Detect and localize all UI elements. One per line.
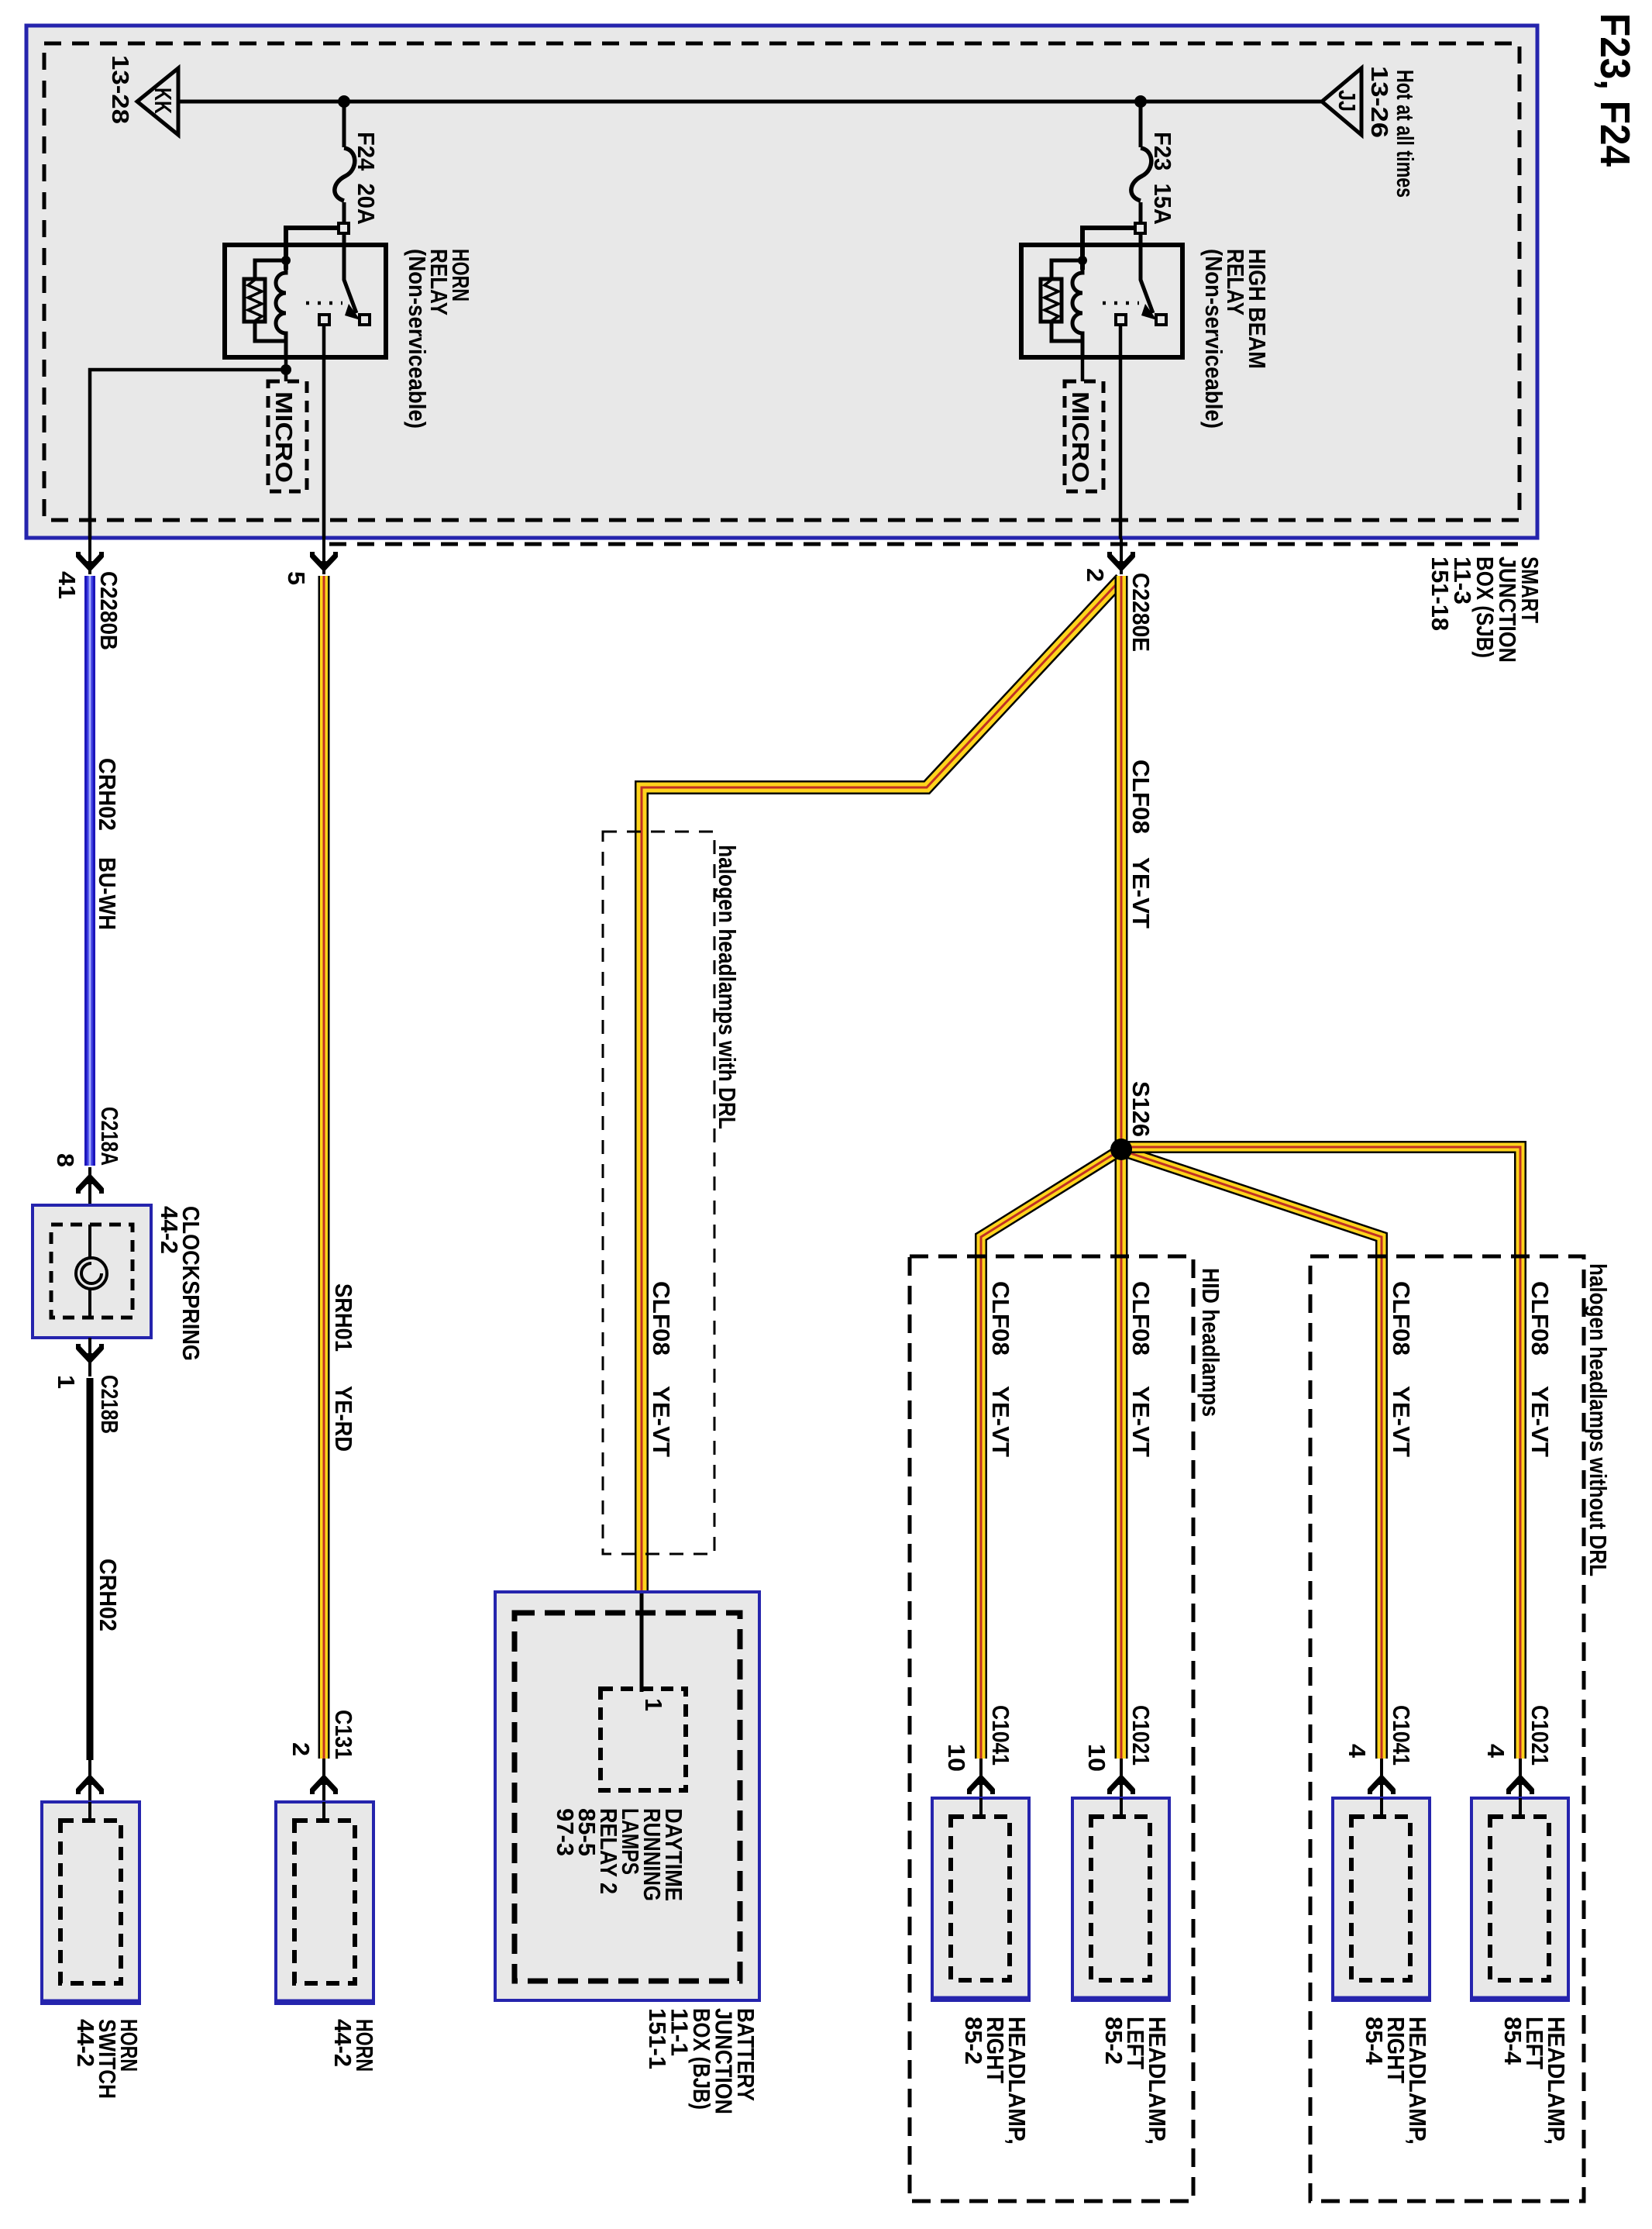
MICRO (dashed) [268,381,307,491]
svg-text:44-2: 44-2 [329,2019,356,2067]
svg-text:CLF08: CLF08 [648,1281,675,1356]
junction: coil top [281,256,291,265]
junction node above F23 [1134,95,1147,108]
power triangle KK [137,68,178,135]
svg-text:(Non-serviceable): (Non-serviceable) [1200,249,1227,429]
svg-text:YE-RD: YE-RD [330,1386,357,1452]
LEFT 85-2 headlamp box [1072,1798,1169,2000]
svg-text:44-2: 44-2 [156,1206,183,1254]
svg-text:C1021: C1021 [1127,1705,1155,1766]
DRL relay pin box (dashed) [601,1689,686,1790]
svg-text:SRH01: SRH01 [330,1283,357,1352]
svg-text:1: 1 [53,1375,80,1389]
svg-text:85-2: 85-2 [960,2017,987,2065]
svg-text:8: 8 [52,1153,79,1167]
MICRO (dashed) [1065,381,1103,491]
headlamp entry arrow [979,1759,983,1798]
relay coil [276,260,286,341]
headlamp entry arrow [1380,1759,1383,1798]
svg-text:(Non-serviceable): (Non-serviceable) [404,249,431,429]
RIGHT 85-2 headlamp box [932,1798,1029,2000]
svg-text:44-2: 44-2 [72,2019,99,2067]
relay coil output to MICRO [1081,357,1085,381]
dashed option box: halogen headlamps with DRL [603,832,714,1554]
horn entry arrow [322,1759,325,1802]
splice S126 [1110,1139,1132,1160]
dashed option box: HID headlamps [910,1256,1193,2201]
svg-text:85-4: 85-4 [1499,2017,1526,2065]
svg-text:C218B: C218B [96,1375,123,1434]
svg-text:F23 15A: F23 15A [1149,132,1176,225]
wire CLF08 S126 to halogen right headlamp [1124,1151,1382,1759]
relay switch mechanical link (dotted) [1103,301,1139,305]
relay box [1021,245,1182,357]
svg-text:C1041: C1041 [987,1705,1014,1766]
svg-text:F23, F24: F23, F24 [1592,13,1638,167]
junction: coil top [1078,256,1087,265]
svg-text:1: 1 [640,1698,667,1711]
svg-text:S126: S126 [1127,1081,1155,1137]
svg-text:97-3: 97-3 [552,1808,579,1856]
svg-text:C1041: C1041 [1388,1705,1415,1766]
svg-text:JJ: JJ [1334,90,1361,112]
svg-text:HID headlamps: HID headlamps [1197,1268,1224,1417]
svg-text:4: 4 [1344,1744,1371,1759]
relay common pin terminal square [339,223,349,233]
svg-text:2: 2 [287,1742,315,1756]
wire: hot feed bus (JJ to KK) [178,100,1322,104]
SJB pin 5 exit arrow [322,539,325,574]
RIGHT 85-4 headlamp box [1333,1798,1430,2000]
fuse F24 20A [342,107,346,147]
relay box [225,245,386,357]
clockspring coil symbol [88,1225,91,1259]
wire CLF08 branch to DRL relay (diagonal) [642,579,1121,1590]
relay suppression resistor [1041,279,1062,322]
svg-text:C2280B: C2280B [95,571,122,650]
relay coil [1072,260,1082,341]
wire: fuse output to relay common pin and coil feed [1082,228,1136,270]
SJB pin 41 exit arrow [88,539,91,574]
svg-text:YE-VT: YE-VT [1127,1386,1155,1457]
relay contact terminals [319,315,329,325]
svg-text:YE-VT: YE-VT [987,1386,1014,1457]
HORN box [276,1802,373,2003]
dashed option box: halogen headlamps without DRL [1310,1256,1584,2201]
svg-text:2: 2 [1082,568,1109,582]
SJB pin 2 exit arrow [1120,539,1123,574]
svg-text:YE-VT: YE-VT [1526,1386,1554,1457]
svg-text:YE-VT: YE-VT [1127,857,1155,928]
LEFT 85-4 headlamp box [1471,1798,1568,2000]
power triangle JJ (Hot at all times) [1322,68,1361,135]
svg-text:F24 20A: F24 20A [353,132,380,225]
wire CLF08 S126 to halogen left headlamp [1121,1147,1520,1759]
relay switch arm [344,233,356,313]
junction node above F24 [338,95,350,108]
headlamp entry arrow [1120,1759,1123,1798]
relay coil output to MICRO and pin 41 [284,357,288,381]
svg-text:13-26: 13-26 [1366,66,1393,138]
svg-text:BU-WH: BU-WH [94,857,121,930]
svg-text:13-28: 13-28 [107,55,134,124]
svg-text:CRH02: CRH02 [95,1559,122,1631]
svg-text:C1021: C1021 [1526,1705,1554,1766]
svg-text:C131: C131 [330,1710,357,1759]
svg-text:MICRO: MICRO [1067,391,1094,483]
svg-text:YE-VT: YE-VT [1388,1386,1415,1457]
SJB lower dashed boundary line [329,543,1519,546]
svg-text:151-1: 151-1 [644,2008,671,2069]
svg-text:Hot at all times: Hot at all times [1392,70,1419,198]
relay contact output wire [322,325,326,539]
wire into horn switch [88,1802,91,1823]
wire: fuse output to relay common pin and coil feed [286,228,339,270]
wire CRH02 (black) to horn switch [87,1378,94,1760]
svg-text:10: 10 [943,1744,970,1772]
svg-text:151-18: 151-18 [1427,556,1454,631]
svg-text:CLF08: CLF08 [987,1281,1014,1356]
svg-text:4: 4 [1482,1744,1509,1759]
svg-text:KK: KK [150,88,177,114]
relay common pin terminal square [1135,223,1145,233]
svg-text:halogen headlamps without DRL: halogen headlamps without DRL [1585,1263,1612,1576]
clockspring entry arrow [88,1167,91,1205]
svg-text:CRH02: CRH02 [94,758,121,831]
headlamp entry arrow [1519,1759,1522,1798]
horn switch entry arrow [88,1760,91,1802]
svg-text:85-2: 85-2 [1100,2017,1127,2065]
svg-text:10: 10 [1083,1744,1110,1772]
HORN SWITCH box [42,1802,139,2003]
wire CLF08 YE-VT main vertical to S126 [1115,576,1128,1759]
clockspring exit arrow [88,1338,91,1376]
relay contact output wire [1119,325,1123,539]
svg-text:85-4: 85-4 [1361,2017,1388,2065]
svg-text:C218A: C218A [96,1107,123,1166]
wire CRH02 BU-WH (blue) [84,576,95,1166]
svg-text:YE-VT: YE-VT [648,1386,675,1457]
resistor/coil parallel connection wires [255,260,286,279]
svg-text:5: 5 [283,571,310,585]
clockspring inner dashed box [51,1225,133,1318]
wire into horn [322,1802,325,1823]
SJB inner dashed border [44,43,1519,520]
SJB outer box (Smart Junction Box, gray) [26,26,1537,538]
wire CLF08 S126 to HID right headlamp [981,1151,1119,1759]
fuse F23 15A [1139,107,1143,147]
relay suppression resistor [244,279,265,322]
svg-text:C2280E: C2280E [1127,573,1155,652]
CLOCKSPRING box [33,1205,151,1338]
BATTERY JUNCTION BOX (BJB) [495,1592,759,2000]
resistor/coil parallel connection wires [1051,260,1082,279]
svg-text:41: 41 [53,571,81,599]
BJB inner dashed border [515,1613,740,1981]
wire SRH01 YE-RD (yellow) [318,576,330,1759]
svg-text:MICRO: MICRO [270,391,298,483]
svg-text:halogen headlamps with DRL: halogen headlamps with DRL [714,845,741,1129]
svg-text:CLF08: CLF08 [1127,1281,1155,1356]
relay switch arm [1141,233,1153,313]
svg-text:CLF08: CLF08 [1388,1281,1415,1356]
relay contact terminals [1116,315,1126,325]
svg-text:CLF08: CLF08 [1127,760,1155,834]
relay switch mechanical link (dotted) [306,301,342,305]
svg-text:CLF08: CLF08 [1526,1281,1554,1356]
wire into DRL relay (inside BJB) [640,1593,644,1692]
